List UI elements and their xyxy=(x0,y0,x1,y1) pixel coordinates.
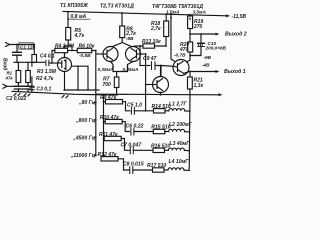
svg-text:R2 4,7к: R2 4,7к xyxy=(36,76,54,82)
svg-text:L1 2,7Г: L1 2,7Г xyxy=(169,101,187,107)
svg-text:700: 700 xyxy=(103,82,112,88)
svg-text:2,7к: 2,7к xyxy=(150,26,161,32)
svg-text:„4500 Гц: „4500 Гц xyxy=(72,135,95,141)
svg-text:Вход: Вход xyxy=(2,58,8,70)
svg-text:Выход 2: Выход 2 xyxy=(225,32,247,38)
svg-text:-9В: -9В xyxy=(204,55,212,60)
svg-text:R12 47к: R12 47к xyxy=(98,152,117,158)
svg-text:R3 1,5М: R3 1,5М xyxy=(37,69,57,75)
svg-text:Т1 КП305Ж: Т1 КП305Ж xyxy=(60,3,89,9)
svg-text:С1 120: С1 120 xyxy=(20,44,36,49)
svg-text:R6 10к: R6 10к xyxy=(79,43,95,49)
svg-text:270: 270 xyxy=(193,24,203,30)
svg-text:3,5мА: 3,5мА xyxy=(193,9,207,14)
svg-text:С4 0,1: С4 0,1 xyxy=(40,53,55,59)
svg-text:„11000 Гц: „11000 Гц xyxy=(70,153,96,159)
svg-text:R16 510: R16 510 xyxy=(151,143,170,149)
svg-text:С5 1,0: С5 1,0 xyxy=(127,103,142,109)
svg-text:L4 10мГ: L4 10мГ xyxy=(169,159,190,165)
svg-text:С6 0,22: С6 0,22 xyxy=(126,124,144,130)
svg-text:200,0×6В: 200,0×6В xyxy=(205,45,227,50)
svg-text:-4В: -4В xyxy=(202,63,210,68)
svg-text:Т2,Т3 КТ301Д: Т2,Т3 КТ301Д xyxy=(100,3,134,9)
svg-text:С2 0,022: С2 0,022 xyxy=(6,96,27,102)
svg-text:R15 510: R15 510 xyxy=(151,125,170,131)
svg-text:-0,5В: -0,5В xyxy=(79,53,91,58)
svg-text:„800 Гц: „800 Гц xyxy=(75,118,96,124)
svg-text:L3 40мГ: L3 40мГ xyxy=(170,141,191,147)
svg-text:R17 510: R17 510 xyxy=(147,163,166,169)
svg-text:„80 Гц: „80 Гц xyxy=(78,100,96,106)
svg-text:1,5мА: 1,5мА xyxy=(166,9,180,14)
svg-text:С3 0,1: С3 0,1 xyxy=(37,87,52,93)
svg-text:С9 47: С9 47 xyxy=(143,56,157,62)
svg-text:-8В: -8В xyxy=(126,36,134,41)
svg-text:С8 0,015: С8 0,015 xyxy=(123,162,144,168)
svg-text:1,3к: 1,3к xyxy=(194,83,204,89)
svg-text:R11 47к: R11 47к xyxy=(99,132,118,138)
svg-text:L2 100мГ: L2 100мГ xyxy=(169,122,193,128)
svg-text:0,35мА: 0,35мА xyxy=(98,67,115,72)
svg-text:Выход 1: Выход 1 xyxy=(224,69,246,75)
svg-text:R13 10к: R13 10к xyxy=(142,39,161,45)
svg-text:47к: 47к xyxy=(5,76,14,81)
svg-text:4,7к: 4,7к xyxy=(74,33,85,39)
svg-text:0,85мА: 0,85мА xyxy=(123,67,140,72)
svg-text:R10 47к: R10 47к xyxy=(100,115,119,121)
svg-text:С7 0,047: С7 0,047 xyxy=(121,143,143,149)
svg-text:-0,7В: -0,7В xyxy=(174,53,186,58)
svg-text:R4 2,2М: R4 2,2М xyxy=(55,43,75,49)
svg-text:R9 47к: R9 47к xyxy=(100,95,117,101)
svg-text:-11,5В: -11,5В xyxy=(232,14,247,20)
svg-text:R14 510: R14 510 xyxy=(152,104,171,110)
svg-text:0,8 мА: 0,8 мА xyxy=(71,14,87,20)
